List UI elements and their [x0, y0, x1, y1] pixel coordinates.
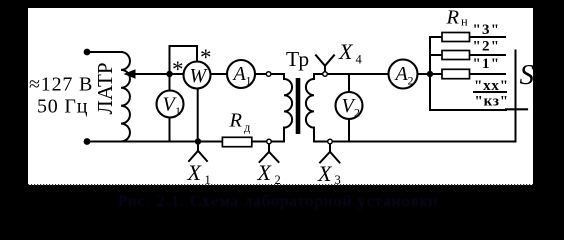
autotransformer ЛАТР coil: [121, 52, 130, 142]
ammeter A1: [227, 60, 255, 88]
node: load bus junction: [427, 71, 433, 77]
node: X1 junction: [195, 138, 201, 144]
svg-text:R: R: [446, 7, 460, 29]
svg-text:≈127 В: ≈127 В: [29, 74, 93, 96]
wire secondary top lead: [314, 74, 389, 79]
white schematic area: [28, 8, 533, 185]
svg-text:S: S: [520, 59, 535, 91]
terminal X3 socket circle: [328, 139, 333, 144]
scan edge dots bottom: [28, 184, 533, 186]
svg-text:1: 1: [175, 104, 181, 118]
svg-text:2: 2: [408, 74, 414, 88]
wiper arrowhead: [124, 69, 136, 78]
svg-text:50 Гц: 50 Гц: [37, 96, 88, 118]
resistor Rн section 1: [442, 69, 470, 78]
node: source terminal top: [84, 49, 91, 56]
switch S blade: [515, 51, 517, 142]
wire top lead from source to ЛАТР: [87, 51, 121, 53]
wire bottom rail (left circuit): [87, 141, 284, 143]
svg-text:X: X: [257, 160, 273, 185]
ammeter A2: [389, 60, 418, 89]
transformer secondary coil: [306, 79, 314, 128]
svg-text:н: н: [461, 15, 468, 29]
svg-text:"3": "3": [473, 22, 501, 38]
transformer primary coil: [284, 79, 292, 128]
wattmeter W: [184, 62, 211, 89]
wire W voltage coil return: [197, 89, 199, 142]
svg-text:*: *: [172, 57, 184, 82]
transformer core: [296, 78, 301, 134]
terminal X2 socket circle: [267, 139, 272, 144]
svg-text:ЛАТР: ЛАТР: [93, 62, 117, 114]
switch S contact tick: [506, 108, 527, 110]
svg-text:Тр: Тр: [286, 47, 309, 71]
load bus Rн: [429, 37, 431, 110]
svg-text:1: 1: [246, 74, 252, 88]
voltmeter V2: [336, 92, 363, 120]
wire primary bottom riser: [283, 128, 285, 142]
svg-text:A: A: [394, 63, 409, 85]
svg-text:д: д: [244, 121, 251, 135]
svg-text:*: *: [200, 45, 212, 70]
terminal after A1 socket circle: [266, 72, 271, 77]
connector X1 fork: [189, 142, 207, 162]
wire V1 branch: [169, 74, 171, 91]
contact line кз: [430, 109, 506, 111]
node: wattmeter tap junction: [166, 71, 172, 77]
resistor Rд: [222, 137, 251, 146]
svg-text:4: 4: [356, 53, 363, 67]
node: source terminal bottom: [84, 138, 91, 145]
wire branch 3: [430, 36, 505, 38]
wire A2 to load bus: [418, 73, 506, 75]
wire W to A1: [211, 73, 228, 75]
svg-text:A: A: [232, 63, 247, 85]
connector X4 fork: [316, 55, 334, 72]
svg-text:X: X: [317, 161, 333, 186]
svg-text:"хх": "хх": [474, 78, 509, 94]
wire secondary bottom riser and rail: [314, 128, 516, 142]
resistor Rн section 2: [442, 51, 470, 60]
wire V2 branch: [348, 74, 350, 92]
svg-text:X: X: [338, 39, 354, 64]
resistor Rн section 3: [442, 33, 470, 42]
svg-text:R: R: [229, 110, 243, 132]
svg-text:"1": "1": [473, 56, 501, 72]
wire wattmeter voltage loop: [170, 46, 198, 74]
terminal X4 socket circle: [323, 72, 328, 77]
voltmeter V1: [157, 91, 184, 119]
wire branch 2: [430, 54, 505, 56]
svg-text:2: 2: [354, 106, 360, 120]
svg-text:"2": "2": [473, 39, 501, 55]
contact line хх: [474, 91, 506, 93]
wire wiper to main line: [134, 73, 184, 75]
connector X3 fork: [320, 144, 340, 163]
svg-text:"кз": "кз": [475, 94, 509, 110]
wire A1 to terminal: [255, 74, 284, 79]
connector X2 fork: [260, 144, 279, 162]
svg-text:X: X: [187, 160, 203, 185]
svg-text:Рис. 2.1. Схема лабораторной у: Рис. 2.1. Схема лабораторной установки: [118, 193, 438, 210]
